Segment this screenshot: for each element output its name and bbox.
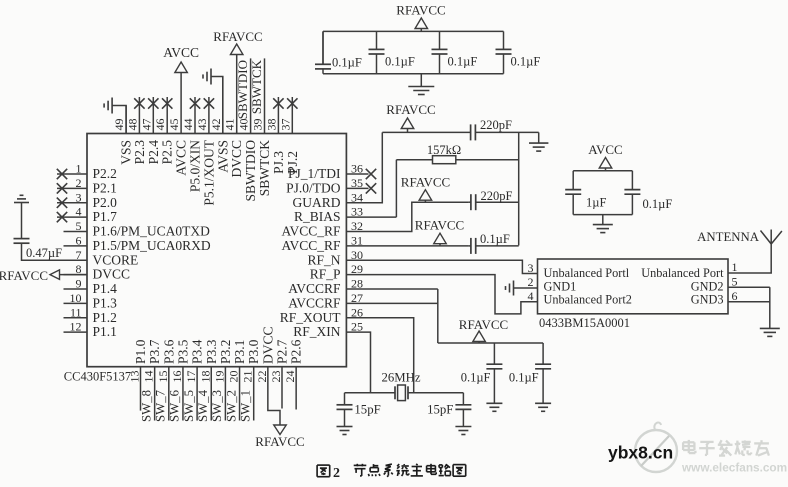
svg-text:36: 36 [351,162,363,176]
balun U2 0433BM15A0001 body [538,259,729,314]
wire RFAVCC bottom rail [438,342,543,344]
wire ground bus [518,132,520,245]
svg-text:1: 1 [76,162,82,176]
power flag RFAVCC (pin 8 DVCC) [0,268,87,283]
pin 44 P5.0/XIN [181,97,203,192]
svg-text:GUARD: GUARD [292,195,340,210]
ground above C1 [14,195,29,202]
svg-text:P3.1: P3.1 [232,340,247,364]
svg-text:RFAVCC: RFAVCC [386,102,435,117]
pin 43 P5.1/XOUT [195,97,217,206]
svg-text:PJ_1/TDI: PJ_1/TDI [288,166,341,181]
svg-text:AVSS: AVSS [215,140,230,173]
svg-text:1: 1 [732,260,738,274]
ground below C11 [486,403,502,411]
svg-text:0.1µF: 0.1µF [480,232,510,246]
svg-text:35: 35 [351,176,363,190]
pin 24 P2.6 [283,339,304,382]
svg-text:16: 16 [170,371,184,383]
svg-text:RFAVCC: RFAVCC [401,175,450,190]
svg-text:39: 39 [251,119,265,131]
svg-text:P1.5/PM_UCA0RXD: P1.5/PM_UCA0RXD [93,238,211,253]
svg-text:RF_P: RF_P [310,267,341,282]
svg-text:SW_1: SW_1 [238,390,252,422]
power flag RFAVCC (GUARD rail) [386,102,435,132]
wire top rail [323,30,504,32]
capacitor C9 1uF [565,171,606,215]
wire AVCC block top rail [573,170,632,172]
svg-text:0.1µF: 0.1µF [448,55,478,69]
svg-text:PJ.3: PJ.3 [271,151,286,174]
ground below C13 [337,427,353,435]
svg-text:43: 43 [195,119,209,131]
capacitor C2 0.1uF [315,31,362,73]
balun U2 pin 1 Unbalanced Port [641,260,737,280]
wire VCORE pin 7 [22,243,88,260]
svg-text:Unbalanced Port2: Unbalanced Port2 [544,293,632,307]
power flag RFAVCC (top cap bank) [396,3,445,32]
svg-text:42: 42 [209,119,223,131]
wire pin 15 switch column [168,367,170,421]
svg-text:38: 38 [264,119,278,131]
watermark logo circle [635,423,677,472]
wire pin 23 [281,367,283,409]
svg-text:SW_7: SW_7 [154,389,168,422]
svg-text:SW_4: SW_4 [196,389,210,422]
pin 48 P2.3 [125,97,147,164]
svg-text:P1.4: P1.4 [93,281,118,296]
net label SW_3 [210,390,224,422]
svg-text:40: 40 [237,119,251,131]
svg-text:AVCC: AVCC [588,142,622,157]
watermark text www.elecfans.com [681,461,787,475]
wire balun pin 1 to antenna [728,244,771,273]
resistor R1 157k [396,143,518,217]
svg-text:GND3: GND3 [691,293,724,307]
svg-text:RFAVCC: RFAVCC [255,434,304,449]
svg-text:AVCCRF: AVCCRF [288,295,341,310]
svg-text:RFAVCC: RFAVCC [459,317,508,332]
wire bottom rail [323,73,504,75]
wire pin 14 switch column [154,367,156,421]
ground at pin 42 AVSS [203,69,223,134]
wire AVCC_RF pin 31 [346,245,469,247]
svg-text:2: 2 [528,275,534,289]
capacitor C3 0.1uF [369,31,415,73]
power flag AVCC (pin 45) [163,45,199,73]
svg-text:20: 20 [227,371,241,383]
capacitor C12 0.1uF [509,343,551,403]
ground below C14 [455,427,471,435]
wire crystal left [345,392,396,394]
net label SBWTCK (pin 39 wire) [249,59,264,114]
balun U2 pin 5 GND2 [691,275,738,294]
svg-text:SW_3: SW_3 [210,390,224,422]
wire DVCC pin 22 to RFAVCC [268,367,280,425]
svg-text:P1.0: P1.0 [133,339,148,364]
pin 22 DVCC [255,326,276,382]
wire pin 13 switch column [140,367,142,411]
wire GUARD pin 34 [346,132,382,202]
balun U2 pin 3 Unbalanced Port1 [528,261,630,280]
pin 45 AVCC [167,73,189,176]
pin 12 P1.1 [64,320,117,340]
pin 47 P2.4 [139,97,161,164]
capacitor C13 15pF [337,393,381,427]
pin 4 P1.7 [57,205,117,225]
pin 27 AVCCRF [288,291,363,311]
svg-text:1µF: 1µF [586,196,606,210]
svg-text:P2.3: P2.3 [132,140,147,165]
wire AVCCRF pin 27 [346,302,437,304]
svg-text:45: 45 [167,119,181,131]
svg-text:P2.1: P2.1 [93,180,117,195]
pin 40 SBWTDIO [237,58,259,201]
svg-text:RF_XOUT: RF_XOUT [280,310,342,325]
pin 37 PJ.2 [278,97,300,174]
capacitor C4 0.1uF [432,31,478,73]
svg-text:DVCC: DVCC [229,140,244,178]
watermark text 电子发烧友 [683,440,769,456]
svg-text:CC430F5137: CC430F5137 [64,370,131,384]
ground at pin 49 VSS [104,98,126,134]
pin 35 PJ.0/TDO [286,176,376,196]
pin 14 P3.7 [142,339,163,382]
ground below C12 [535,403,551,411]
svg-text:SBWTCK: SBWTCK [257,140,272,197]
wire pin 20 switch column [239,367,241,421]
svg-text:9: 9 [76,277,82,291]
wire AVCCRF vertical to rail [437,289,439,343]
svg-text:0.1µF: 0.1µF [461,371,491,385]
svg-text:ANTENNA: ANTENNA [697,230,760,244]
svg-text:RFAVCC: RFAVCC [396,3,445,18]
IC U1 CC430F5137 body [87,134,346,367]
svg-text:0.1µF: 0.1µF [385,55,415,69]
wire AVCC block bottom rail [573,214,632,216]
pin 34 GUARD [292,190,363,210]
svg-text:DVCC: DVCC [260,326,275,364]
svg-text:ybx8.cn: ybx8.cn [608,443,673,463]
svg-text:SBWTCK: SBWTCK [249,59,264,114]
svg-text:47: 47 [139,119,153,131]
svg-text:24: 24 [283,371,297,383]
pin 19 P3.2 [212,340,233,383]
power flag AVCC (decoupling block) [588,142,622,171]
svg-text:AVCC_RF: AVCC_RF [281,224,341,239]
wire AVCC_RF pin 32 [346,202,468,231]
pin 23 P2.7 [269,339,290,382]
svg-text:41: 41 [223,119,237,131]
svg-text:15pF: 15pF [427,403,453,417]
svg-text:P3.7: P3.7 [147,339,162,364]
balun U2 value 0433BM15A0001 [539,316,630,330]
svg-text:15: 15 [156,371,170,383]
pin 49 VSS [112,106,134,165]
svg-text:0.47µF: 0.47µF [26,246,62,260]
svg-text:RFAVCC: RFAVCC [415,218,464,233]
svg-text:4: 4 [528,289,534,303]
svg-text:157kΩ: 157kΩ [427,143,461,157]
wire pin 19 switch column [224,367,226,421]
svg-text:VCORE: VCORE [93,252,139,267]
pin 1 P2.2 [57,162,117,182]
svg-text:13: 13 [128,371,142,383]
svg-text:P3.3: P3.3 [204,339,219,364]
svg-text:0.1µF: 0.1µF [643,197,673,211]
balun U2 pin 4 Unbalanced Port2 [528,289,632,307]
svg-text:15pF: 15pF [354,403,380,417]
svg-text:10: 10 [70,291,82,305]
net label SW_8 [139,390,153,422]
svg-text:12: 12 [70,320,82,334]
svg-text:P3.0: P3.0 [246,339,261,364]
pin 6 P1.5/PM_UCA0RXD [64,233,211,253]
wire RF_XIN pin 25 [346,332,370,393]
pin 18 P3.3 [198,339,219,382]
svg-text:5: 5 [76,219,82,233]
svg-text:Unbalanced Portl: Unbalanced Portl [544,266,630,280]
svg-text:2: 2 [76,176,82,190]
svg-text:48: 48 [125,119,139,131]
svg-text:2: 2 [333,466,340,481]
svg-text:P1.3: P1.3 [93,295,118,310]
pin 39 SBWTCK [251,58,273,196]
svg-text:SW_2: SW_2 [224,390,238,422]
svg-text:RFAVCC: RFAVCC [213,29,262,44]
pin 42 AVSS [209,77,231,173]
pin 21 P3.0 [241,339,262,382]
svg-text:P1.1: P1.1 [93,324,117,339]
svg-text:P2.4: P2.4 [146,140,161,165]
wire pin 17 switch column [196,367,198,421]
svg-text:P2.7: P2.7 [275,339,290,364]
svg-text:P3.6: P3.6 [161,339,176,364]
power flag RFAVCC (pin 41 DVCC) [213,29,262,134]
net label SW_4 [196,389,210,422]
pin 41 DVCC [223,119,245,178]
svg-text:18: 18 [198,371,212,383]
wire pin 24 [295,367,297,410]
svg-text:SBWTDIO: SBWTDIO [235,60,250,119]
svg-text:AVCC: AVCC [163,45,199,60]
svg-text:AVCC_RF: AVCC_RF [281,238,341,253]
pin 16 P3.5 [170,339,191,382]
power flag RFAVCC (pin 31 net) [415,218,464,246]
svg-text:220pF: 220pF [481,189,513,203]
wire RF_P pin 29 to balun pin 4 [346,275,537,314]
svg-text:RFAVCC: RFAVCC [0,268,48,283]
wire RF_XOUT pin 26 [346,318,413,393]
wire RF_N pin 30 to balun pin 3 [346,260,537,273]
crystal Y1 26MHz [381,371,420,401]
pin 2 P2.1 [57,176,117,196]
svg-text:PJ.0/TDO: PJ.0/TDO [286,180,341,195]
svg-text:P1.7: P1.7 [93,209,118,224]
svg-text:4: 4 [76,205,82,219]
wire pin 18 switch column [210,367,212,421]
net label SW_2 [224,390,238,422]
net label SW_7 [154,389,168,422]
svg-text:6: 6 [732,289,738,303]
pin 29 RF_P [310,262,363,282]
capacitor C8 0.1uF [469,232,519,254]
IC U1 value label CC430F5137 [64,370,131,384]
capacitor C7 220pF [469,189,519,210]
pin 15 P3.6 [156,339,177,382]
wire pin 21 switch column [253,367,255,421]
pin 13 P1.0 [128,339,149,382]
svg-text:14: 14 [142,371,156,383]
svg-text:P1.6/PM_UCA0TXD: P1.6/PM_UCA0TXD [93,224,211,239]
net label SBWTDIO (pin 40 wire) [235,60,250,119]
svg-text:3: 3 [528,261,534,275]
svg-text:P2.0: P2.0 [93,195,118,210]
svg-text:AVCC: AVCC [174,140,189,176]
svg-text:P3.5: P3.5 [175,339,190,364]
svg-text:SW_5: SW_5 [182,390,196,422]
svg-text:P2.5: P2.5 [160,140,175,165]
antenna ANT1 [697,230,782,245]
pin 31 AVCC_RF [281,233,363,253]
svg-text:0433BM15A0001: 0433BM15A0001 [539,316,630,330]
svg-text:37: 37 [278,119,292,131]
svg-text:5: 5 [732,275,738,289]
pin 30 RF_N [307,248,363,268]
pin 17 P3.4 [184,339,205,382]
svg-text:0.1µF: 0.1µF [509,371,539,385]
wire balun pins 5-6 to ground [728,287,770,328]
pin 32 AVCC_RF [281,219,363,239]
wire pin 16 switch column [182,367,184,421]
power flag RFAVCC (pin 32 net) [401,175,450,203]
svg-text:RF_XIN: RF_XIN [293,324,341,339]
svg-text:11: 11 [70,305,82,319]
capacitor C10 0.1uF [624,171,672,215]
pin 9 P1.4 [64,277,118,297]
svg-text:19: 19 [212,371,226,383]
pin 25 RF_XIN [293,320,363,340]
svg-text:0.1µF: 0.1µF [511,55,541,69]
pin 20 P3.1 [227,340,248,383]
svg-text:P5.1/XOUT: P5.1/XOUT [201,139,216,205]
ground right of C6 [529,132,548,151]
capacitor C14 15pF [427,393,471,427]
svg-text:DVCC: DVCC [93,267,131,282]
svg-text:3: 3 [76,190,82,204]
svg-text:26MHz: 26MHz [381,371,420,385]
watermark text ybx8.cn [608,443,673,463]
power flag RFAVCC (pin 22 DVCC) [255,425,304,449]
svg-text:23: 23 [269,371,283,383]
pin 28 AVCCRF [288,277,363,297]
caption: 图 2 节点系统主电路图 [317,464,466,481]
ground below antenna net [760,328,780,336]
wire R_BIAS pin 33 [346,216,396,218]
svg-text:GND2: GND2 [691,280,724,294]
svg-text:P2.6: P2.6 [289,339,304,364]
svg-text:AVCCRF: AVCCRF [288,281,341,296]
ground below top cap bank [408,74,434,95]
capacitor C1 0.47uF [14,203,63,261]
pin 38 PJ.3 [264,97,286,174]
svg-text:49: 49 [112,118,126,130]
svg-text:46: 46 [153,119,167,131]
balun U2 pin 2 GND1 [506,275,577,296]
pin 11 P1.2 [64,305,117,325]
svg-text:P2.2: P2.2 [93,166,117,181]
svg-text:GND1: GND1 [544,280,577,294]
pin 36 PJ_1/TDI [288,162,376,182]
svg-text:SBWTDIO: SBWTDIO [243,140,258,202]
wire AVCCRF pin 28 [346,288,437,290]
svg-text:P3.2: P3.2 [218,340,233,364]
capacitor C11 0.1uF [461,343,503,403]
svg-text:P1.2: P1.2 [93,310,117,325]
balun U2 pin 6 GND3 [691,289,738,307]
pin 33 R_BIAS [294,205,363,225]
svg-text:RF_N: RF_N [307,252,340,267]
svg-text:21: 21 [241,371,255,383]
net label SW_1 [238,390,252,422]
capacitor C6 220pF [382,118,538,140]
pin 7 VCORE [64,248,139,268]
svg-text:Unbalanced Port: Unbalanced Port [641,266,724,280]
svg-text:www.elecfans.com: www.elecfans.com [681,461,787,475]
power flag RFAVCC (bottom rail) [459,317,508,343]
pin 26 RF_XOUT [280,305,363,325]
svg-text:P5.0/XIN: P5.0/XIN [188,140,203,192]
pin 10 P1.3 [64,291,118,311]
svg-text:SW_8: SW_8 [139,390,153,422]
svg-text:0.1µF: 0.1µF [332,56,362,70]
svg-text:R_BIAS: R_BIAS [294,209,341,224]
pin 3 P2.0 [57,190,117,210]
ground below AVCC block [593,215,613,233]
pin 46 P2.5 [153,97,175,164]
wire crystal right [408,392,463,394]
pin 8 DVCC [64,262,131,282]
pin 5 P1.6/PM_UCA0TXD [64,219,211,239]
capacitor C5 0.1uF [496,31,541,73]
net label SW_6 [168,389,182,422]
svg-text:44: 44 [181,119,195,131]
svg-text:220pF: 220pF [480,118,512,132]
net label SW_5 [182,390,196,422]
svg-text:P3.4: P3.4 [190,339,205,364]
svg-text:SW_6: SW_6 [168,389,182,422]
svg-text:22: 22 [255,371,269,383]
svg-text:6: 6 [76,233,82,247]
svg-text:17: 17 [184,371,198,383]
